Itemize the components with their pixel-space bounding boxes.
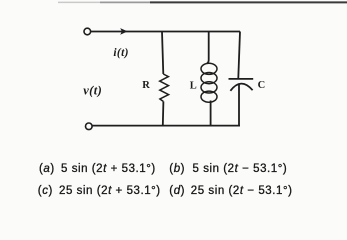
wire: bottom conductor xyxy=(92,125,240,127)
wire: R branch top xyxy=(162,32,163,75)
wire: C branch bottom xyxy=(238,84,240,125)
svg-text:i(t): i(t) xyxy=(113,47,128,59)
resistor R xyxy=(160,74,169,102)
wire: L branch bottom xyxy=(210,101,212,126)
inductor L xyxy=(201,63,217,102)
wire: R branch bottom xyxy=(162,102,165,126)
capacitor C xyxy=(229,79,254,91)
svg-text:L: L xyxy=(190,80,197,91)
answer option (a) xyxy=(39,164,55,176)
arrow: current direction i(t) xyxy=(120,28,127,35)
wire: top conductor xyxy=(91,31,240,33)
wire: L branch top xyxy=(207,32,209,64)
terminal T1 (top-left input) xyxy=(84,28,91,35)
answer option (c) xyxy=(38,186,53,198)
svg-text:C: C xyxy=(258,80,266,91)
svg-text:v(t): v(t) xyxy=(83,84,102,98)
terminal T2 (bottom-left input) xyxy=(86,123,93,130)
answer option (b) xyxy=(169,164,185,176)
answer option (d) xyxy=(169,186,185,198)
wire: C branch top xyxy=(238,32,240,79)
svg-text:R: R xyxy=(142,80,150,91)
